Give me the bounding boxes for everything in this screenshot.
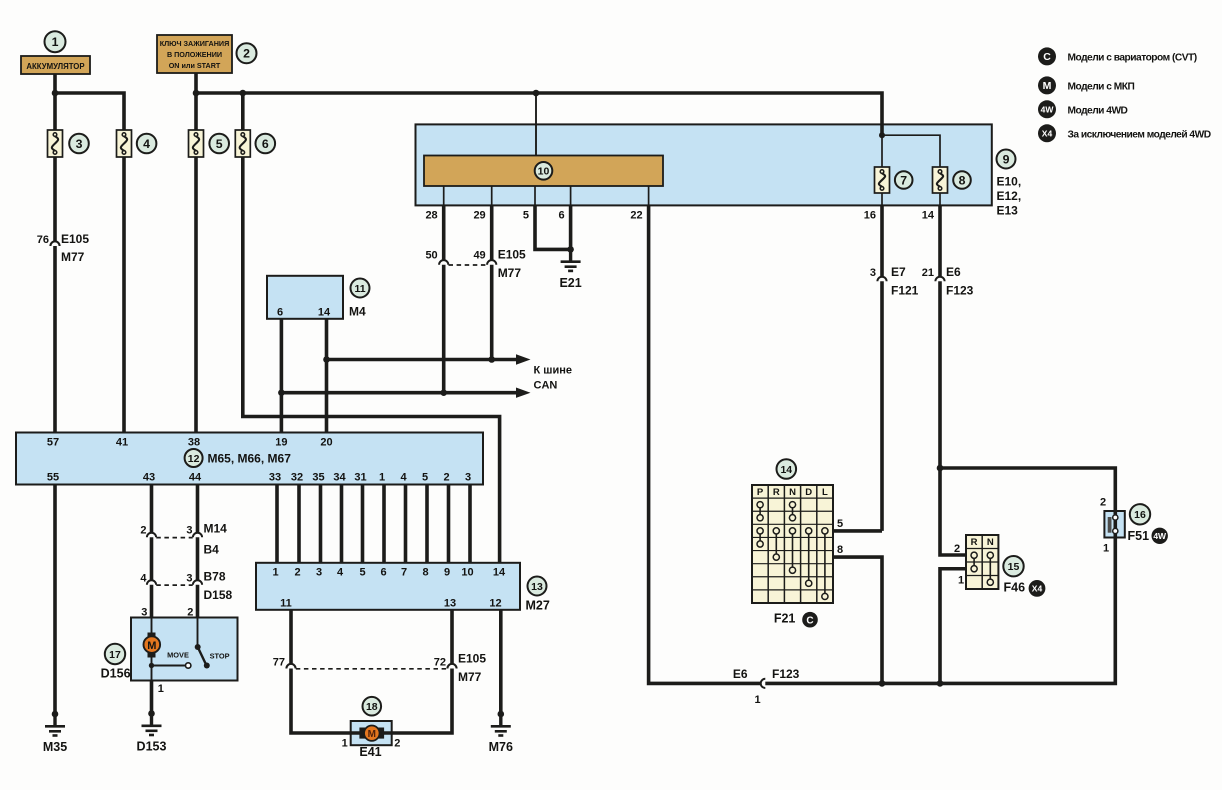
svg-text:E41: E41 xyxy=(359,745,381,759)
svg-text:1: 1 xyxy=(52,35,59,49)
svg-text:13: 13 xyxy=(531,581,543,593)
svg-text:M: M xyxy=(368,729,376,740)
svg-text:19: 19 xyxy=(275,437,287,449)
svg-text:3: 3 xyxy=(465,472,471,484)
svg-text:M77: M77 xyxy=(61,250,85,264)
svg-text:20: 20 xyxy=(320,437,332,449)
svg-text:КЛЮЧ ЗАЖИГАНИЯ: КЛЮЧ ЗАЖИГАНИЯ xyxy=(160,39,229,48)
svg-text:3: 3 xyxy=(186,525,192,537)
svg-text:14: 14 xyxy=(780,464,792,476)
svg-text:4W: 4W xyxy=(1153,531,1167,541)
svg-text:M: M xyxy=(147,640,156,652)
svg-text:C: C xyxy=(806,615,813,626)
svg-text:2: 2 xyxy=(394,738,400,750)
svg-text:7: 7 xyxy=(401,566,407,578)
svg-text:7: 7 xyxy=(900,173,907,187)
svg-text:13: 13 xyxy=(444,598,456,610)
svg-text:18: 18 xyxy=(366,701,378,713)
svg-text:2: 2 xyxy=(294,566,300,578)
svg-text:M65, M66, M67: M65, M66, M67 xyxy=(208,452,292,466)
svg-text:Модели 4WD: Модели 4WD xyxy=(1068,106,1128,117)
svg-text:2: 2 xyxy=(954,543,960,555)
svg-text:E6: E6 xyxy=(946,265,961,279)
svg-text:2: 2 xyxy=(140,525,146,537)
svg-text:57: 57 xyxy=(47,437,59,449)
svg-text:4: 4 xyxy=(337,566,344,578)
svg-text:50: 50 xyxy=(425,250,437,262)
svg-text:АККУМУЛЯТОР: АККУМУЛЯТОР xyxy=(26,62,84,71)
svg-text:10: 10 xyxy=(538,166,550,178)
svg-text:11: 11 xyxy=(354,283,365,295)
svg-text:E105: E105 xyxy=(61,232,89,246)
svg-text:6: 6 xyxy=(380,566,386,578)
svg-text:F121: F121 xyxy=(891,284,919,298)
svg-text:E105: E105 xyxy=(498,248,526,262)
svg-text:31: 31 xyxy=(354,472,366,484)
svg-text:К шине: К шине xyxy=(534,365,572,377)
svg-text:11: 11 xyxy=(280,598,292,610)
svg-text:M14: M14 xyxy=(204,522,228,536)
svg-text:21: 21 xyxy=(922,267,934,279)
svg-text:12: 12 xyxy=(489,598,501,610)
svg-text:M35: M35 xyxy=(43,740,67,754)
svg-text:16: 16 xyxy=(864,210,876,222)
svg-text:B78: B78 xyxy=(204,570,226,584)
svg-text:R: R xyxy=(773,487,780,498)
svg-text:M76: M76 xyxy=(489,740,513,754)
svg-text:B4: B4 xyxy=(204,543,220,557)
svg-text:E7: E7 xyxy=(891,265,906,279)
svg-text:41: 41 xyxy=(116,437,128,449)
svg-text:29: 29 xyxy=(473,210,485,222)
svg-text:55: 55 xyxy=(47,472,59,484)
svg-text:D158: D158 xyxy=(204,588,233,602)
svg-text:F51: F51 xyxy=(1128,529,1150,543)
svg-text:1: 1 xyxy=(272,566,278,578)
svg-text:За исключением моделей 4WD: За исключением моделей 4WD xyxy=(1068,130,1211,141)
svg-text:D: D xyxy=(805,487,812,498)
svg-text:15: 15 xyxy=(1008,561,1020,573)
svg-text:77: 77 xyxy=(273,657,285,669)
svg-text:44: 44 xyxy=(189,472,202,484)
svg-text:E6: E6 xyxy=(733,667,748,681)
svg-text:9: 9 xyxy=(444,566,450,578)
svg-text:D153: D153 xyxy=(137,740,167,754)
svg-text:F46: F46 xyxy=(1004,581,1026,595)
svg-text:1: 1 xyxy=(158,683,164,695)
svg-text:2: 2 xyxy=(243,47,250,61)
svg-text:8: 8 xyxy=(959,173,966,187)
svg-text:14: 14 xyxy=(922,210,935,222)
svg-text:F123: F123 xyxy=(946,284,974,298)
svg-text:ON или START: ON или START xyxy=(169,61,221,70)
svg-text:Модели с вариатором (CVT): Модели с вариатором (CVT) xyxy=(1068,53,1197,64)
svg-text:M77: M77 xyxy=(498,266,522,280)
svg-text:9: 9 xyxy=(1003,152,1010,166)
svg-text:3: 3 xyxy=(76,137,83,151)
svg-text:M27: M27 xyxy=(526,599,550,613)
svg-text:2: 2 xyxy=(187,607,193,619)
svg-text:L: L xyxy=(822,487,828,498)
svg-text:N: N xyxy=(789,487,796,498)
svg-text:E105: E105 xyxy=(458,652,486,666)
svg-text:6: 6 xyxy=(277,307,283,319)
svg-text:E13: E13 xyxy=(997,204,1019,218)
svg-text:5: 5 xyxy=(837,518,843,530)
svg-text:16: 16 xyxy=(1134,509,1146,521)
svg-text:E21: E21 xyxy=(559,276,581,290)
svg-text:5: 5 xyxy=(422,472,428,484)
svg-text:N: N xyxy=(987,537,994,548)
svg-text:C: C xyxy=(1043,51,1051,63)
svg-text:E12,: E12, xyxy=(997,189,1022,203)
svg-text:8: 8 xyxy=(837,544,843,556)
svg-text:5: 5 xyxy=(359,566,365,578)
svg-text:CAN: CAN xyxy=(534,380,558,392)
svg-text:76: 76 xyxy=(37,234,49,246)
svg-text:F21: F21 xyxy=(774,612,796,626)
svg-text:32: 32 xyxy=(291,472,303,484)
svg-text:X4: X4 xyxy=(1032,583,1043,593)
svg-text:6: 6 xyxy=(262,137,269,151)
svg-text:1: 1 xyxy=(1103,543,1109,555)
svg-text:P: P xyxy=(757,487,764,498)
svg-text:M4: M4 xyxy=(349,305,366,319)
svg-text:22: 22 xyxy=(630,210,642,222)
svg-text:28: 28 xyxy=(425,210,437,222)
svg-text:Модели с МКП: Модели с МКП xyxy=(1068,82,1135,93)
svg-text:72: 72 xyxy=(434,657,446,669)
svg-text:M77: M77 xyxy=(458,670,482,684)
svg-text:3: 3 xyxy=(316,566,322,578)
svg-text:17: 17 xyxy=(109,649,121,661)
svg-text:3: 3 xyxy=(141,607,147,619)
svg-text:8: 8 xyxy=(422,566,428,578)
svg-text:1: 1 xyxy=(379,472,385,484)
svg-text:3: 3 xyxy=(186,573,192,585)
svg-text:X4: X4 xyxy=(1042,128,1053,138)
svg-text:3: 3 xyxy=(870,267,876,279)
svg-text:1: 1 xyxy=(754,694,760,706)
svg-text:MOVE: MOVE xyxy=(167,650,189,659)
svg-text:35: 35 xyxy=(312,472,324,484)
svg-text:M: M xyxy=(1043,80,1052,92)
svg-text:43: 43 xyxy=(143,472,155,484)
svg-text:38: 38 xyxy=(188,437,200,449)
svg-text:12: 12 xyxy=(188,453,200,465)
svg-text:2: 2 xyxy=(443,472,449,484)
svg-text:14: 14 xyxy=(318,307,331,319)
svg-text:5: 5 xyxy=(523,210,529,222)
svg-text:4W: 4W xyxy=(1041,104,1055,114)
svg-text:STOP: STOP xyxy=(210,651,230,660)
svg-text:14: 14 xyxy=(493,566,506,578)
svg-text:4: 4 xyxy=(400,472,407,484)
svg-text:6: 6 xyxy=(558,210,564,222)
svg-text:4: 4 xyxy=(143,137,150,151)
svg-text:R: R xyxy=(971,537,978,548)
svg-text:1: 1 xyxy=(342,738,348,750)
svg-text:10: 10 xyxy=(461,566,473,578)
svg-text:В ПОЛОЖЕНИИ: В ПОЛОЖЕНИИ xyxy=(167,50,222,59)
svg-text:34: 34 xyxy=(333,472,346,484)
svg-text:F123: F123 xyxy=(772,667,800,681)
svg-text:D156: D156 xyxy=(101,667,131,681)
svg-text:2: 2 xyxy=(1100,497,1106,509)
svg-text:49: 49 xyxy=(473,250,485,262)
svg-text:5: 5 xyxy=(216,137,223,151)
svg-text:33: 33 xyxy=(269,472,281,484)
svg-text:1: 1 xyxy=(958,575,964,587)
svg-text:E10,: E10, xyxy=(997,175,1022,189)
svg-text:4: 4 xyxy=(140,573,147,585)
